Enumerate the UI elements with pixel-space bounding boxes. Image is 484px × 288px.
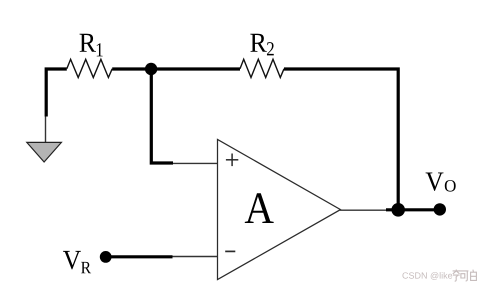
wire output lead (thin) xyxy=(340,209,386,211)
node VR terminal xyxy=(100,251,112,263)
op-amp plus input marker xyxy=(226,154,238,167)
wire plus input lead (thin) xyxy=(173,162,218,164)
wire noninverting input branch xyxy=(151,69,173,163)
wire minus input lead (thin) xyxy=(173,256,218,258)
resistor R1 xyxy=(67,59,112,77)
label VR "V" xyxy=(63,251,81,269)
label R2 "R" xyxy=(250,34,266,52)
label R2 subscript 2 xyxy=(267,42,274,55)
watermark CSDN @like xyxy=(402,272,452,280)
node junction at noninverting branch xyxy=(145,63,157,75)
resistor R2 xyxy=(240,59,284,77)
op-amp gain label A xyxy=(245,193,274,223)
label VR subscript R xyxy=(81,262,91,273)
wire output segment to VO terminal xyxy=(386,208,440,211)
ground xyxy=(27,142,62,162)
node VO terminal xyxy=(434,203,446,215)
label R1 subscript 1 xyxy=(97,43,103,56)
label VO "V" xyxy=(426,172,444,190)
wire feedback segment R2 to output node xyxy=(284,69,398,206)
watermark 李可白 strokes xyxy=(453,270,477,282)
wire top-left segment to R1 and down to ground xyxy=(46,69,67,117)
wire ground lead (thin) xyxy=(45,117,47,143)
node output junction xyxy=(391,203,405,217)
op-amp minus input marker xyxy=(225,250,235,252)
wire top middle segment R1 to R2 xyxy=(112,67,240,70)
label R1 "R" xyxy=(80,34,96,52)
op-amp U1 triangle xyxy=(218,139,341,279)
wire VR to inverting input xyxy=(106,255,173,258)
label VO subscript O xyxy=(445,180,456,191)
